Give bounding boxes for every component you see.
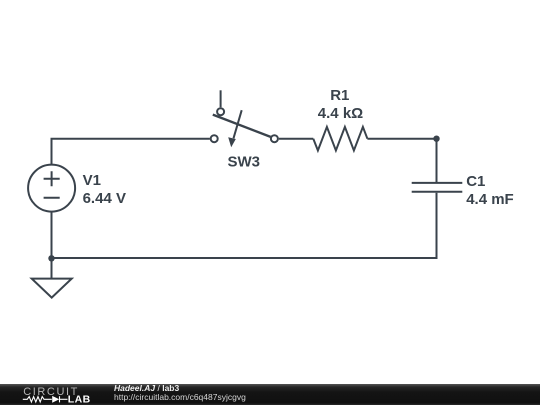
wire switch right terminal to resistor [279,138,314,140]
wire capacitor bottom to bottom rail [52,193,437,258]
wire V1 bottom to ground node [51,213,53,259]
node A junction dot [433,136,439,142]
wire resistor to node A [367,138,436,140]
svg-text:LAB: LAB [68,394,91,405]
svg-text:4.4 mF: 4.4 mF [466,191,514,208]
CircuitLab logo [0,384,110,405]
svg-text:4.4 kΩ: 4.4 kΩ [318,105,363,122]
wire top rail from V1 to switch left terminal [52,139,210,164]
ground [32,279,72,298]
switch SW3 [211,90,278,147]
ground node junction dot [48,255,54,261]
svg-text:R1: R1 [330,87,349,104]
svg-text:6.44 V: 6.44 V [83,190,126,207]
switch lever [213,115,271,137]
resistor R1 [313,127,367,151]
wire ground stub [51,258,53,279]
svg-text:V1: V1 [83,172,101,189]
capacitor C1 [412,183,463,192]
voltage source V1 [28,165,75,212]
wire node A down to capacitor top [436,139,438,182]
pin stub top throw [220,90,222,107]
terminal circle right [271,135,278,142]
svg-text:SW3: SW3 [227,153,260,170]
actuation arrow [234,110,242,138]
svg-text:C1: C1 [466,173,485,190]
terminal circle top [217,108,224,115]
terminal circle left [211,135,218,142]
credit text [114,384,246,403]
